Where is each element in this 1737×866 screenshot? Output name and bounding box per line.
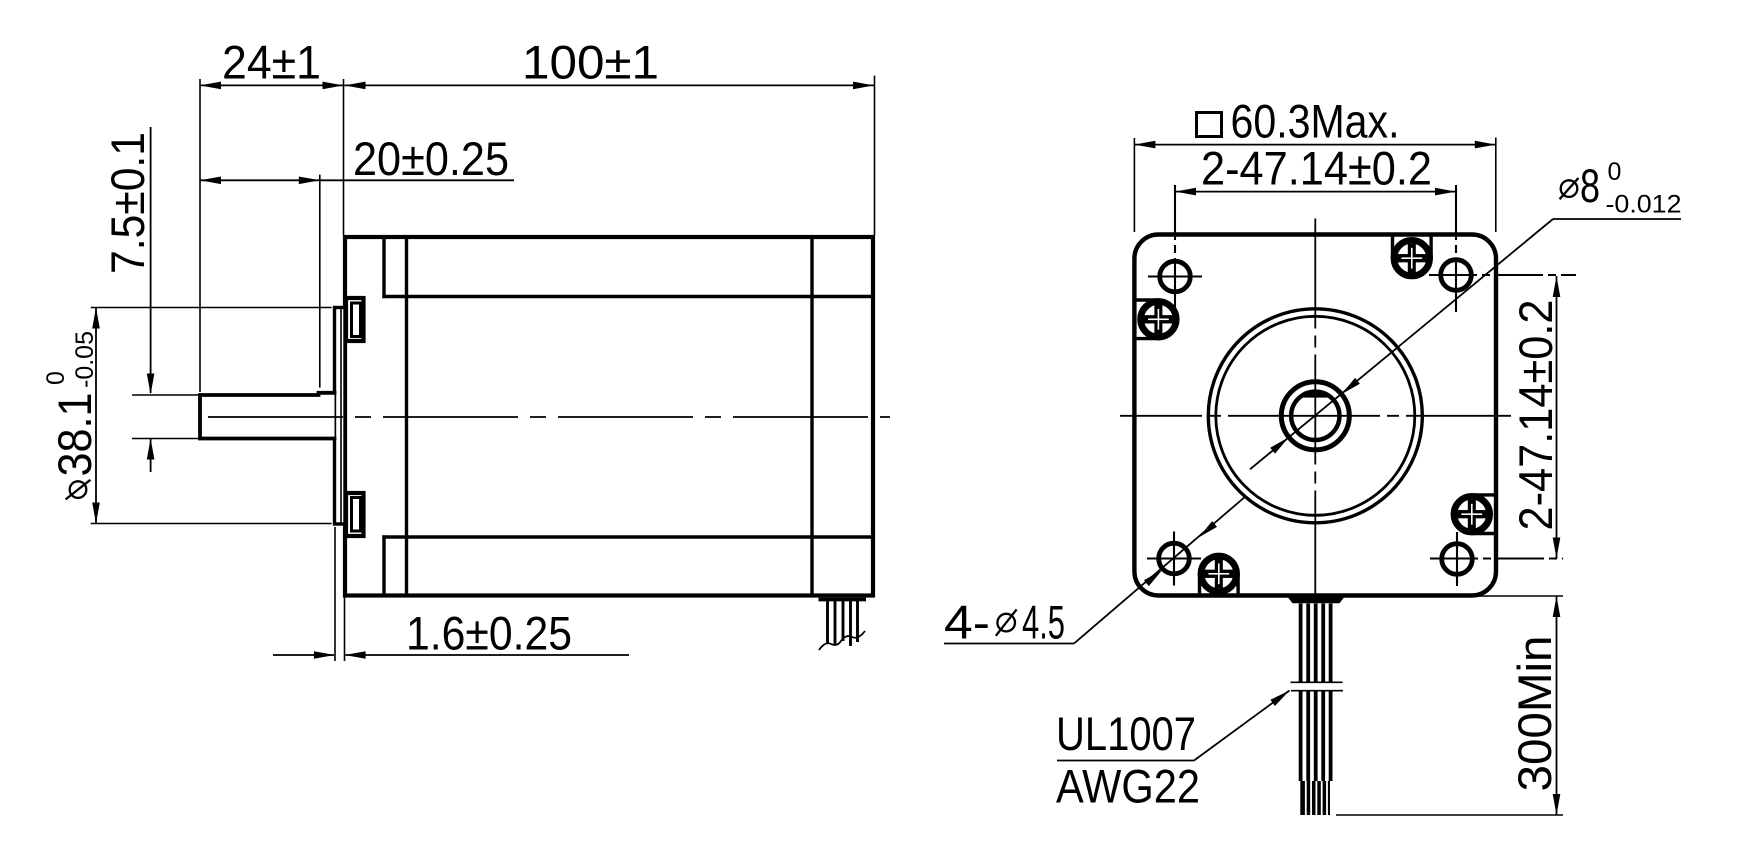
svg-text:8: 8 <box>1580 160 1600 213</box>
extension line body face (1.6) <box>344 598 346 662</box>
svg-text:24±1: 24±1 <box>222 37 321 90</box>
dim text □60.3Max. <box>1197 96 1400 149</box>
arrow 1.6 right <box>314 651 335 659</box>
dim line 300Min <box>1556 596 1558 815</box>
dim line 100±1 <box>345 84 875 86</box>
extension line shaft flat end <box>319 175 321 388</box>
svg-text:2-47.14±0.2: 2-47.14±0.2 <box>1510 300 1563 531</box>
arrow 20 right <box>299 177 320 185</box>
centerline vertical (front) <box>1314 219 1316 601</box>
svg-text:0: 0 <box>42 371 70 385</box>
extension line square bottom right <box>1476 595 1563 597</box>
arrow 300Min up <box>1553 596 1561 617</box>
arrow UL1007 <box>1270 691 1289 707</box>
svg-text:60.3Max.: 60.3Max. <box>1231 96 1400 149</box>
dim line 20±0.25 <box>200 179 514 181</box>
svg-text:300Min: 300Min <box>1509 636 1562 792</box>
arrow 60.3 right <box>1475 141 1496 149</box>
arrow Ø38.1 down <box>92 503 100 524</box>
dim text Ø8 0/-0.012 <box>1560 158 1682 219</box>
arrow 60.3 left <box>1134 141 1155 149</box>
motor face square <box>1134 235 1496 596</box>
svg-text:38.1: 38.1 <box>49 393 102 477</box>
svg-text:1.6±0.25: 1.6±0.25 <box>406 608 572 661</box>
svg-text:AWG22: AWG22 <box>1056 761 1200 814</box>
svg-text:-0.012: -0.012 <box>1606 191 1682 219</box>
extension line motor face <box>343 79 345 235</box>
shaft flat chord <box>1302 393 1328 397</box>
svg-text:20±0.25: 20±0.25 <box>353 133 509 186</box>
leader 4-Ø4.5 underline <box>944 643 1074 645</box>
svg-text:100±1: 100±1 <box>522 37 659 90</box>
mounting hole top-right <box>1429 185 1576 312</box>
extension line boss bottom <box>91 523 332 525</box>
wire break squiggle (side) <box>819 631 865 650</box>
arrow 100 left <box>345 82 366 90</box>
wire gland (front) <box>1288 598 1344 604</box>
rear cap vertical line <box>810 237 813 596</box>
arrow Ø8 lower <box>1270 437 1289 453</box>
dim line 1.6±0.25 <box>273 654 629 656</box>
arrow 100 right <box>853 82 874 90</box>
svg-text:-0.05: -0.05 <box>71 331 99 388</box>
dim line 2-47.14 right <box>1556 276 1558 559</box>
arrow 300Min down <box>1553 794 1561 815</box>
extension line boss face (1.6) <box>334 527 336 661</box>
mounting screw tab top (side) <box>346 298 364 341</box>
centerline horizontal (front) <box>1120 415 1511 417</box>
svg-text:7.5±0.1: 7.5±0.1 <box>102 132 155 274</box>
arrow 4-Ø4.5 counter <box>1199 521 1218 537</box>
arrow 20 left <box>200 177 221 185</box>
svg-text:2-47.14±0.2: 2-47.14±0.2 <box>1201 143 1432 196</box>
extension line square right <box>1495 138 1497 233</box>
arrow 24 right <box>323 82 344 90</box>
cable break lines <box>1291 682 1344 690</box>
assembly screw left <box>1134 300 1176 339</box>
dim text Ø38.1 0/-0.05 (rotated) <box>42 331 102 499</box>
assembly screw bottom-left <box>1200 556 1239 596</box>
arrowheads left view <box>92 82 874 659</box>
leader 4-Ø4.5 <box>1074 496 1246 644</box>
wires (front) <box>1301 604 1331 782</box>
arrow 7.5 down <box>147 374 155 395</box>
dim line 2-47.14 top <box>1175 191 1456 193</box>
stripped wire end <box>1300 781 1330 815</box>
pilot boss (side) <box>335 308 346 525</box>
mounting hole top-left <box>1148 185 1202 314</box>
arrow 2-47.14 right down <box>1553 538 1561 559</box>
boss inner thin line <box>340 309 342 522</box>
assembly screw bottom-right <box>1454 495 1496 534</box>
wire exit cap (side) <box>819 598 867 602</box>
dim line 24±1 <box>200 84 344 86</box>
wires (side) <box>828 601 858 646</box>
arrow Ø38.1 up <box>92 308 100 329</box>
mounting screw tab bottom (side) <box>346 493 364 536</box>
front end-cap vertical line (short, top) <box>382 237 385 297</box>
extension line shaft end <box>199 79 201 392</box>
upper body horizontal line <box>384 295 873 298</box>
motor body outline <box>345 237 873 596</box>
arrow 4-Ø4.5 at hole <box>1144 570 1163 586</box>
pilot boss outer circle <box>1208 309 1422 523</box>
arrow 1.6 left <box>345 651 366 659</box>
extension line shaft bottom (left) <box>132 438 198 440</box>
centerline (side view axis) <box>208 416 890 418</box>
arrow 2-47.14 top right <box>1435 188 1456 196</box>
svg-text:4.5: 4.5 <box>1022 597 1065 650</box>
extension line wire end <box>1336 814 1563 816</box>
arrow 2-47.14 right up <box>1553 276 1561 297</box>
svg-text:UL1007: UL1007 <box>1056 708 1196 761</box>
leader Ø8 upper <box>1250 219 1553 469</box>
extension line square left <box>1133 138 1135 232</box>
svg-text:4-: 4- <box>944 597 990 650</box>
shaft with flat (side) <box>200 393 335 439</box>
hub outer circle <box>1281 382 1349 450</box>
shaft circle <box>1291 392 1339 440</box>
leader Ø8 shelf <box>1553 218 1681 220</box>
mounting hole bottom-right <box>1430 532 1563 586</box>
extension line boss top <box>91 307 332 309</box>
front end-cap vertical line (short, bottom) <box>382 537 385 596</box>
arrowheads front view <box>1134 141 1560 815</box>
arrow 2-47.14 top left <box>1175 188 1196 196</box>
arrow Ø8 upper <box>1341 378 1360 394</box>
pilot boss inner circle <box>1216 316 1415 515</box>
front cap full-height vertical line <box>405 237 408 596</box>
lower body horizontal line <box>384 535 873 538</box>
dim line 60.3 <box>1134 144 1495 146</box>
leader UL1007 <box>1194 691 1290 761</box>
assembly screw top-right <box>1393 235 1432 277</box>
arrow 7.5 up <box>147 439 155 460</box>
dim line Ø38.1 <box>95 308 97 524</box>
mounting hole bottom-left <box>1147 532 1201 586</box>
extension line shaft flat (left) <box>132 394 198 396</box>
svg-text:0: 0 <box>1608 158 1622 186</box>
leader UL1007 underline <box>1057 760 1194 762</box>
arrow 24 left <box>200 82 221 90</box>
extension line motor rear <box>874 76 876 235</box>
dim line 7.5±0.1 <box>150 127 152 472</box>
